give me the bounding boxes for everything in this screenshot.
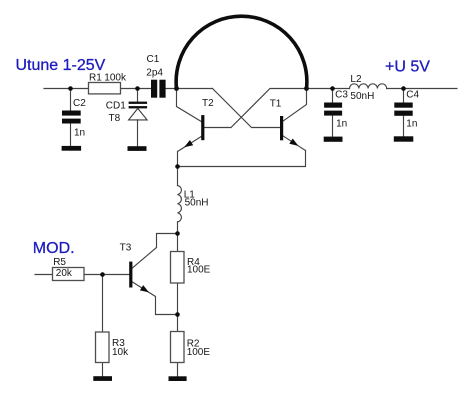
svg-text:1n: 1n: [74, 128, 85, 139]
svg-text:CD1: CD1: [106, 100, 126, 111]
svg-text:Utune 1-25V: Utune 1-25V: [16, 57, 106, 74]
svg-text:L2: L2: [350, 74, 362, 85]
svg-text:C1: C1: [147, 54, 160, 65]
svg-text:MOD.: MOD.: [33, 240, 75, 257]
svg-text:C3: C3: [335, 89, 348, 100]
svg-text:T2: T2: [202, 98, 214, 109]
svg-text:100E: 100E: [187, 265, 211, 276]
svg-text:C2: C2: [73, 98, 86, 109]
svg-text:100E: 100E: [187, 347, 211, 358]
svg-text:10k: 10k: [112, 347, 129, 358]
svg-text:100k: 100k: [104, 72, 127, 83]
svg-text:50nH: 50nH: [350, 91, 374, 102]
svg-text:50nH: 50nH: [185, 197, 209, 208]
svg-text:T3: T3: [120, 243, 132, 254]
svg-text:2p4: 2p4: [146, 67, 163, 78]
svg-text:1n: 1n: [336, 119, 347, 130]
svg-text:+U 5V: +U 5V: [385, 59, 430, 76]
svg-text:20k: 20k: [56, 268, 73, 279]
svg-text:C4: C4: [406, 89, 419, 100]
svg-text:T1: T1: [270, 99, 282, 110]
svg-text:T8: T8: [109, 113, 121, 124]
svg-text:R5: R5: [53, 257, 66, 268]
svg-text:1n: 1n: [406, 118, 417, 129]
